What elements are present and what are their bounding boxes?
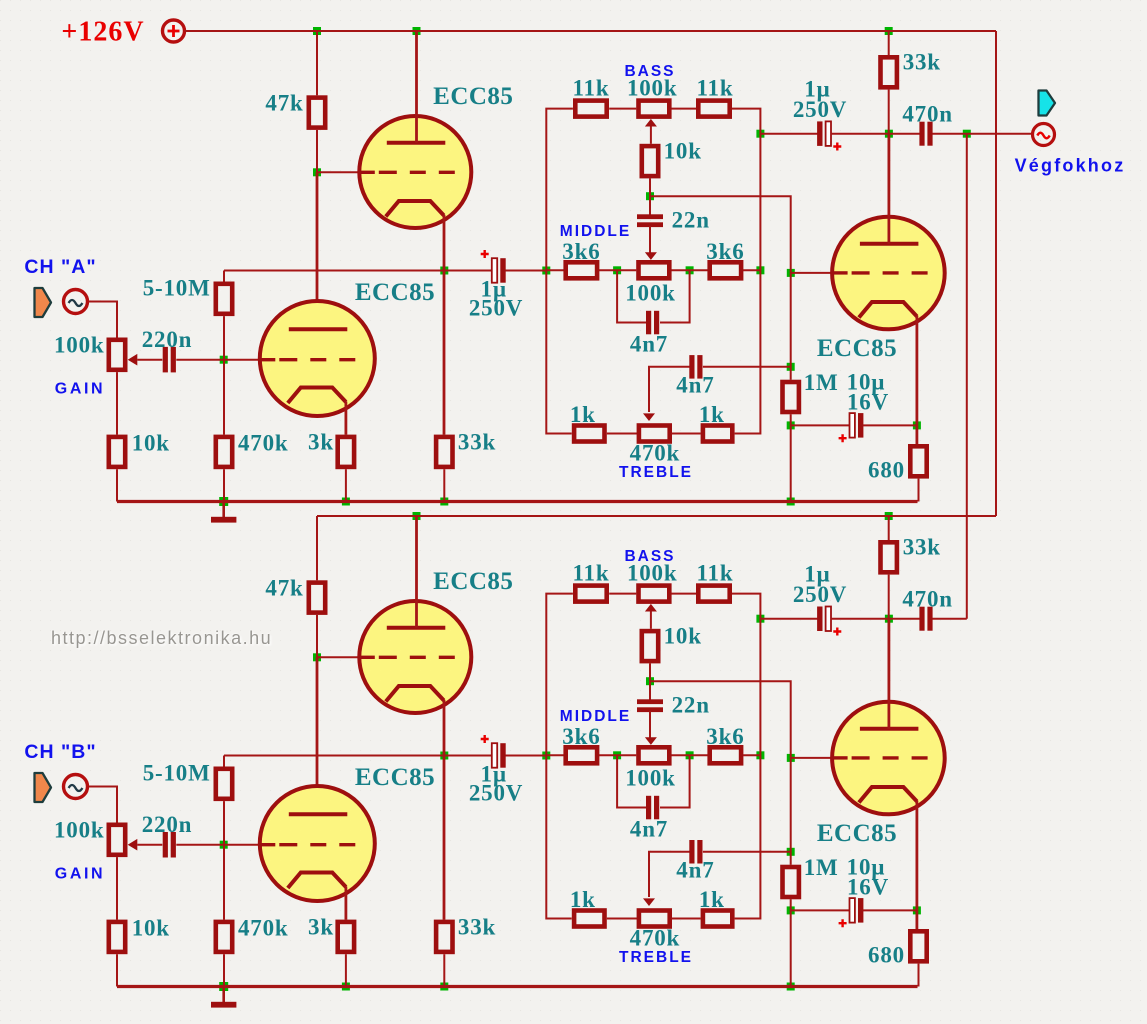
svg-text:GAIN: GAIN [55,380,105,397]
label 10k A [132,431,170,456]
svg-text:http://bsselektronika.hu: http://bsselektronika.hu [51,628,272,648]
svg-text:3k: 3k [308,429,334,454]
label ECC85 V1a A [355,279,435,306]
label 1k A [699,402,725,427]
wire 11k to bass pot A [609,108,636,110]
wire 1k to treble pot B [607,918,638,920]
resistor 11k right A [698,101,729,117]
junction grid tap V2 A [787,269,795,277]
wire output bus [966,134,968,619]
wire 1u out to anode node B [831,618,921,620]
wire treble wiper up B [643,852,690,906]
wire wiper to 220n A [137,359,162,361]
svg-text:470k: 470k [238,431,289,456]
label CH A A [24,256,96,278]
wire 3k6 to right rail A [743,269,761,271]
resistor 3k A [338,437,354,467]
label 11k B [573,560,610,585]
junction ground/33k B [440,983,448,991]
svg-text:100k: 100k [625,280,676,305]
wire 220n to grid V1a B [176,844,261,846]
label 220n B [142,812,193,837]
wire input to pot B [89,787,118,824]
label 16V B [847,874,889,899]
input arrow B [35,773,52,802]
svg-text:5-10M: 5-10M [143,760,211,785]
junction ground/33k A [440,498,448,506]
wire 33k to ground B [443,954,445,986]
wire middle row left B [546,754,564,756]
svg-text:33k: 33k [458,429,496,454]
junction rail/33k A [885,27,893,35]
triode V1b ECC85 (cathode follower) A [359,116,471,228]
wire 22n to middle wiper A [645,226,657,260]
triode V1a ECC85 (input stage) B [260,786,375,901]
svg-text:22n: 22n [672,692,710,717]
svg-text:MIDDLE: MIDDLE [560,708,631,725]
wire 10k to ground rail B [116,954,118,986]
wire 47k to anode node A [316,130,318,172]
wire follower output B [224,755,492,757]
wire 470n to output bus B [933,618,967,620]
resistor 3k B [338,922,354,952]
wire tone right rail B [732,594,761,919]
label 4n7 treble B [676,857,714,882]
input arrow A [35,288,52,317]
svg-text:ECC85: ECC85 [433,568,513,595]
wire +126V rail B [317,515,996,517]
junction ground/3k B [342,983,350,991]
wire output tap A [760,133,818,135]
capacitor 4n7 treble B [689,840,702,864]
label 470k TREBLE A [630,440,681,465]
svg-text:33k: 33k [458,914,496,939]
label +126V A [61,17,144,48]
wire output tap B [760,618,818,620]
label TREBLE B [619,949,693,966]
junction output bus tap A [963,130,971,138]
junction 1M/10u B [787,906,795,914]
junction 1M/10u A [787,421,795,429]
svg-text:100k: 100k [625,765,676,790]
label 220n A [142,327,193,352]
label MIDDLE B [560,708,631,725]
wire 1M to ground A [790,414,792,501]
wire cathode V1a to 3k B [344,887,347,920]
label 33k A [458,429,496,454]
triode V2 ECC85 (output stage) A [832,217,945,330]
svg-text:680: 680 [868,943,905,968]
resistor 470k A [216,437,232,467]
svg-text:100k: 100k [54,817,105,842]
potentiometer 470k TREBLE A [639,426,670,442]
junction grid tap V2 B [787,754,795,762]
junction tone stack input A [542,267,550,275]
wire 5-10M top corner A [223,271,225,282]
wire grid V1b A [317,171,361,173]
junction mid/4n7 left B [613,751,621,759]
svg-text:TREBLE: TREBLE [619,949,693,966]
svg-text:250V: 250V [793,582,847,607]
wire follower output A [224,270,492,272]
wire tone right rail A [732,109,761,434]
wire 1u to tone stack B [506,755,547,757]
wire 10k to 22n node A [649,178,651,196]
svg-text:250V: 250V [469,296,523,321]
svg-text:Végfokhoz: Végfokhoz [1015,156,1126,176]
junction 4n7/grid rail B [787,848,795,856]
junction ground/1M A [787,498,795,506]
wire wiper to 220n B [137,844,162,846]
svg-text:10k: 10k [132,431,170,456]
wire 10u A [791,424,851,426]
svg-text:4n7: 4n7 [630,816,668,841]
junction 4n7/grid rail A [787,363,795,371]
resistor 3k6 right B [710,747,741,763]
label TREBLE A [619,464,693,481]
label 250V A [793,97,847,122]
triode V1b ECC85 (cathode follower) B [359,601,471,713]
label 250V B [793,582,847,607]
wire grid rail mid A [790,273,792,380]
capacitor 10u 16V cathode B (electrolytic) [839,898,864,927]
wire +126V rail A [185,30,996,32]
svg-text:GAIN: GAIN [55,865,105,882]
svg-text:680: 680 [868,458,905,483]
resistor 33k anode B [881,542,897,572]
svg-text:22n: 22n [672,207,710,232]
svg-text:MIDDLE: MIDDLE [560,223,631,240]
svg-text:11k: 11k [573,75,610,100]
label 470n A [902,101,953,126]
junction 47k/anode V1a/grid V1b B [313,653,321,661]
wire cathode V1b down B [443,700,446,920]
resistor 1k right A [703,426,732,442]
junction cathode/10u/680 A [913,421,921,429]
capacitor 22n B [637,699,663,712]
wire 10u to cathode B [863,909,917,911]
wire 1k to treble pot A [607,433,638,435]
wire 33k to anode node B [888,575,890,619]
svg-text:220n: 220n [142,327,193,352]
label 250V A [469,296,523,321]
resistor 5-10M B [216,769,232,799]
wire 680 to ground rail B [918,964,920,987]
label 3k6 A [562,239,600,264]
svg-text:ECC85: ECC85 [355,279,435,306]
svg-text:3k6: 3k6 [706,239,744,264]
label 1k B [699,887,725,912]
wire 10u to cathode A [863,424,917,426]
label 680 B [868,943,905,968]
svg-text:250V: 250V [793,97,847,122]
wire 4n7 to grid rail A [703,366,791,368]
svg-text:ECC85: ECC85 [817,335,897,362]
power terminal +126V [163,20,185,42]
wire 4n7 bridge B [617,755,690,807]
junction mid/4n7 left A [613,266,621,274]
label 5-10M B [143,760,211,785]
label ECC85 V1b B [433,568,513,595]
label ECC85 V2 B [817,820,897,847]
wire 3k to ground B [345,954,347,986]
wire bass wiper to 10k A [645,119,657,144]
junction rail/anode V1b A [413,27,421,35]
wire bass pot to 11k B [672,593,697,595]
resistor 33k A [436,437,452,467]
wire input to pot A [89,302,118,339]
junction mid row/right rail A [756,266,764,274]
resistor 680 A [910,446,926,476]
svg-text:100k: 100k [54,332,105,357]
wire anode V1a B [316,657,319,814]
label 100k MIDDLE A [625,280,676,305]
capacitor 1u 250V coupling B (electrolytic) [481,735,506,768]
svg-text:470k: 470k [630,440,681,465]
junction tone rail/output A [756,130,764,138]
wire 33k to ground A [443,469,445,501]
resistor 11k left B [575,586,606,602]
label GAIN B [55,865,105,882]
junction grid node V1a A [220,356,228,364]
svg-text:470n: 470n [902,586,953,611]
label 16V A [847,389,889,414]
capacitor 1u 250V coupling A (electrolytic) [481,250,506,283]
svg-text:47k: 47k [265,91,303,116]
label 100k GAIN A [54,332,105,357]
resistor 47k B [309,583,325,613]
label 100k GAIN B [54,817,105,842]
svg-text:5-10M: 5-10M [143,275,211,300]
junction ground/470k B [219,982,228,991]
label BASS B [624,548,675,565]
output arrow Vegfokhoz [1039,91,1056,116]
label 1u out B [804,562,830,587]
svg-text:11k: 11k [697,75,734,100]
junction tone stack input B [542,752,550,760]
resistor 33k B [436,922,452,952]
label 1u A [481,277,507,302]
label 4n7 mid A [630,331,668,356]
svg-text:1M: 1M [804,370,839,395]
junction anode V2 node B [885,615,893,623]
junction rail/33k B [885,512,893,520]
svg-text:3k: 3k [308,914,334,939]
junction mid/4n7 right B [686,751,694,759]
potentiometer 100k MIDDLE A [639,262,670,278]
wire grid rail mid B [790,758,792,865]
resistor 1k left B [574,911,604,927]
label 470k A [238,431,289,456]
wire tone left rail A [546,109,573,434]
svg-text:10k: 10k [664,623,702,648]
wire 5-10M top corner B [223,756,225,767]
resistor 11k right B [698,586,729,602]
potentiometer 100k GAIN A [109,340,138,370]
junction ground/1M B [787,983,795,991]
svg-text:250V: 250V [469,781,523,806]
wire 10k to ground rail A [116,469,118,501]
wire 10u B [791,909,851,911]
label 22n B [672,692,710,717]
resistor 47k A [309,98,325,128]
wire grid V2 A [791,272,834,274]
wire 10k to 22n node B [649,663,651,681]
label 1u out A [804,77,830,102]
wire 5-10M bottom B [223,801,225,845]
potentiometer 100k GAIN B [109,825,138,855]
wire 3k6 to right rail B [743,754,761,756]
wire 3k to ground A [345,469,347,501]
svg-text:4n7: 4n7 [676,857,714,882]
junction 10k/22n node A [646,192,654,200]
wire grid node to 470k B [223,845,225,920]
label 470k B [238,916,289,941]
svg-text:1k: 1k [570,887,596,912]
resistor 11k left A [575,101,606,117]
wire 220n to grid V1a A [176,359,261,361]
label 470k TREBLE B [630,925,681,950]
wire 3k6 to mid pot B [599,754,636,756]
label 11k A [573,75,610,100]
wire mid pot to 3k6 A [672,269,708,271]
ground symbol A [211,502,236,523]
label 1M A [804,370,839,395]
wire ground rail B [117,985,918,988]
svg-text:1k: 1k [570,402,596,427]
resistor 5-10M A [216,284,232,314]
wire 22n stem A [649,196,651,216]
wire 1u to tone stack A [506,270,547,272]
junction mid row/right rail B [756,751,764,759]
wire 1u out to anode node A [831,133,921,135]
svg-text:16V: 16V [847,874,889,899]
capacitor 4n7 middle A [646,311,659,335]
junction anode V2 node A [885,130,893,138]
label Vegfokhoz [1015,156,1126,176]
svg-text:ECC85: ECC85 [817,820,897,847]
label 10u B [847,855,886,880]
label 10k B [132,916,170,941]
label 680 A [868,458,905,483]
wire bass pot to 11k A [672,108,697,110]
wire ground rail A [117,500,918,503]
label 1u B [481,762,507,787]
svg-text:ECC85: ECC85 [355,764,435,791]
label 47k B [265,576,303,601]
label 100k MIDDLE B [625,765,676,790]
label 250V B [469,781,523,806]
wire 1M to ground B [790,899,792,986]
label 11k B [697,560,734,585]
label ECC85 V1a B [355,764,435,791]
capacitor 1u 250V output B (electrolytic) [817,607,841,636]
output terminal circle [1033,124,1055,146]
wire anode V1b B [415,516,418,628]
capacitor 220n B [163,832,176,858]
wire grid node to 470k A [223,360,225,435]
watermark [51,628,272,648]
wire +126V feed to channel B [995,31,997,516]
label 3k A [308,429,334,454]
svg-text:10k: 10k [132,916,170,941]
wire 33k anode drop B [888,516,890,540]
svg-text:100k: 100k [627,560,678,585]
wire anode V1b A [415,31,418,143]
capacitor 1u 250V output A (electrolytic) [817,121,841,150]
junction rail/anode V1b B [413,512,421,520]
svg-text:3k6: 3k6 [562,724,600,749]
junction tone rail/output B [756,615,764,623]
junction 47k/anode V1a/grid V1b A [313,168,321,176]
resistor 10k A [109,437,125,467]
wire node to grid rail A [650,196,791,273]
resistor 3k6 left A [566,262,597,278]
label CH B B [24,741,96,763]
wire 22n to middle wiper B [645,711,657,745]
resistor 1M A [783,382,799,412]
wire rail to 47k A [316,31,318,95]
junction mid/4n7 right A [686,266,694,274]
svg-text:220n: 220n [142,812,193,837]
label MIDDLE A [560,223,631,240]
label 3k B [308,914,334,939]
svg-text:47k: 47k [265,576,303,601]
junction rail/47k A [313,27,321,35]
wire cathode V1a to 3k A [344,402,347,435]
resistor 33k anode A [881,57,897,87]
label 1k A [570,402,596,427]
potentiometer 470k TREBLE B [639,911,670,927]
svg-text:4n7: 4n7 [676,372,714,397]
capacitor 4n7 middle B [646,796,659,820]
label 4n7 treble A [676,372,714,397]
junction cathode V1b / output B [440,752,448,760]
wire 680 to ground rail A [918,479,920,502]
wire rail to 47k B [316,516,318,580]
wire 4n7 to grid rail B [703,851,791,853]
label 10u A [847,370,886,395]
junction cathode V1b / output A [440,267,448,275]
svg-text:CH "A": CH "A" [24,256,96,278]
label 5-10M A [143,275,211,300]
resistor 1k left A [574,426,604,442]
svg-text:1k: 1k [699,887,725,912]
label ECC85 V2 A [817,335,897,362]
label 470n B [902,586,953,611]
label 3k6 B [706,724,744,749]
wire node to grid rail B [650,681,791,758]
wire 470k to ground B [223,954,225,986]
resistor 680 B [910,931,926,961]
svg-text:16V: 16V [847,389,889,414]
wire 22n stem B [649,681,651,701]
wire tone left rail B [546,594,573,919]
resistor 1M B [783,867,799,897]
svg-text:3k6: 3k6 [706,724,744,749]
label 1M B [804,855,839,880]
label 33k A [903,49,941,74]
wire 3k6 to mid pot A [599,269,636,271]
label 4n7 mid B [630,816,668,841]
svg-text:470k: 470k [238,916,289,941]
resistor 3k6 right A [710,262,741,278]
wire bass wiper to 10k B [645,604,657,629]
wire 33k anode drop A [888,31,890,55]
capacitor 22n A [637,214,663,227]
wire treble pot to 1k A [671,433,700,435]
svg-text:4n7: 4n7 [630,331,668,356]
